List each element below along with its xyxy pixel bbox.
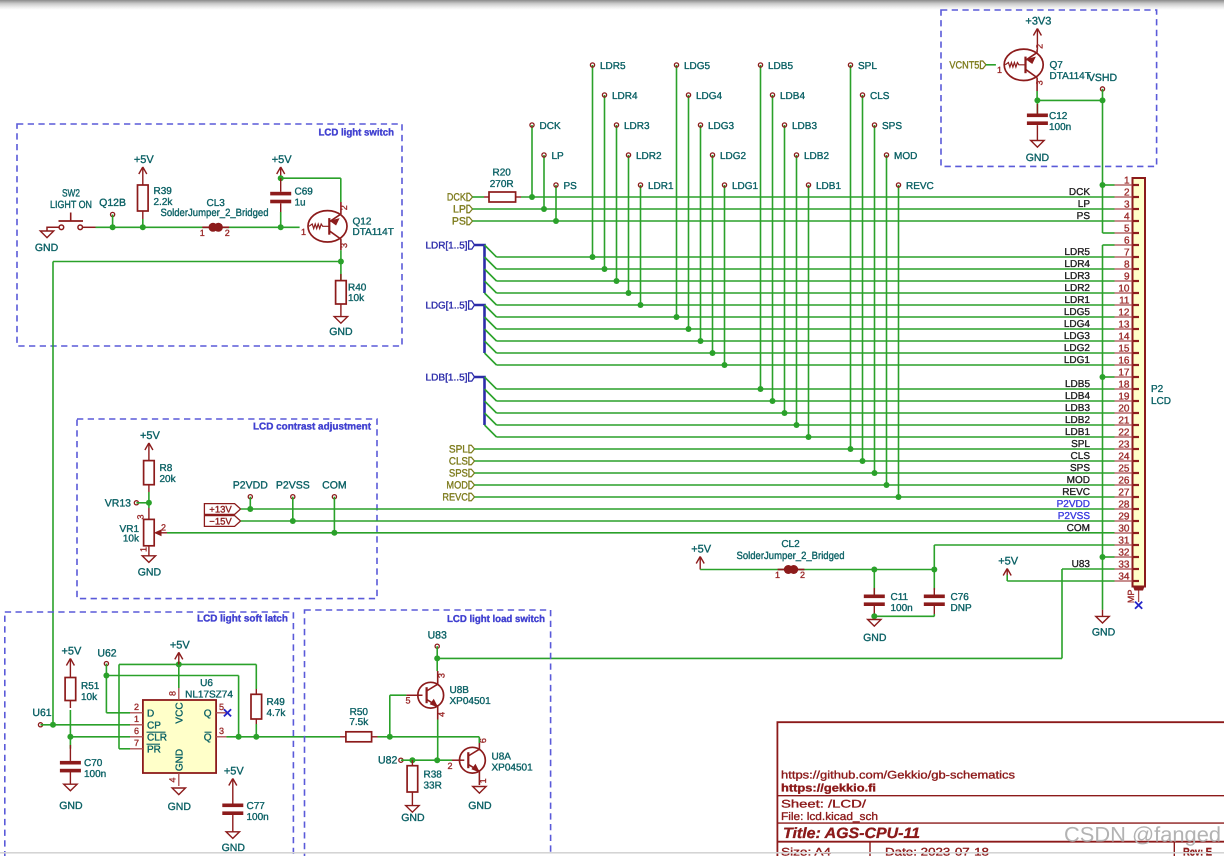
lead GND below connector [1102, 610, 1104, 617]
hierarchical label CLS [469, 457, 475, 465]
wire VCNT5 to Q7 [986, 64, 996, 66]
svg-text:2: 2 [225, 228, 230, 238]
wire U83 vertical [1061, 569, 1063, 658]
lead C70 bottom [69, 772, 71, 784]
svg-text:C70: C70 [84, 758, 103, 769]
capacitor C11 [864, 595, 885, 599]
wire Q7 pin3 down [1036, 91, 1038, 100]
pin 17 of P2 [1115, 376, 1133, 378]
junction [553, 218, 559, 224]
open wire end [554, 183, 558, 187]
ground GND at switch [47, 227, 59, 231]
lead R20 right [516, 196, 521, 198]
wire CLS row [475, 460, 1115, 462]
wire R8 to VR1 [148, 492, 150, 508]
junction [626, 290, 632, 296]
svg-text:3: 3 [1124, 200, 1130, 211]
wire U62 to Qbar [106, 675, 238, 677]
svg-text:LDR1: LDR1 [648, 181, 674, 192]
svg-text:2: 2 [447, 761, 452, 771]
svg-text:LDB1: LDB1 [1065, 427, 1090, 438]
junction [50, 722, 56, 728]
svg-text:1: 1 [1124, 176, 1130, 187]
svg-text:VR13: VR13 [105, 497, 131, 509]
power +5V above R8 [145, 443, 149, 450]
svg-text:SW2: SW2 [62, 188, 80, 200]
svg-text:1: 1 [997, 65, 1002, 75]
open wire end [848, 63, 852, 67]
open wire end [896, 183, 900, 187]
svg-text:5: 5 [219, 702, 224, 712]
pin 20 of P2 [1115, 412, 1133, 414]
wire pin17 [1103, 376, 1115, 378]
pin 13 of P2 [1115, 328, 1133, 330]
svg-text:+5V: +5V [140, 430, 161, 442]
lead R40 top [340, 262, 342, 281]
svg-text:DCK: DCK [1069, 187, 1090, 198]
wire CLR row [70, 736, 130, 738]
svg-text:10k: 10k [348, 293, 365, 304]
wire R51 to CLR [69, 710, 71, 737]
wire C76 to bottom [933, 614, 935, 616]
svg-text:4.7k: 4.7k [267, 708, 287, 719]
wire column SPS [874, 125, 876, 473]
svg-text:3: 3 [339, 243, 349, 248]
svg-text:DTA114T: DTA114T [1050, 71, 1091, 82]
junction [278, 175, 284, 181]
junction [338, 259, 344, 265]
pin 3 of P2 [1115, 208, 1133, 210]
wire REVC row [475, 496, 1115, 498]
wire VSHD vertical [1102, 89, 1104, 233]
wire SPS row [475, 472, 1115, 474]
U6 right pin stubs [216, 712, 226, 714]
junction [140, 224, 146, 230]
pin 10 of P2 [1115, 292, 1133, 294]
svg-text:GND: GND [174, 749, 185, 771]
svg-text:GND: GND [468, 800, 492, 812]
svg-text:C76: C76 [951, 592, 970, 603]
svg-text:2: 2 [1124, 188, 1130, 199]
svg-text:LDR1: LDR1 [1064, 295, 1090, 306]
junction [860, 458, 866, 464]
junction [710, 350, 716, 356]
open wire end [806, 183, 810, 187]
open wire end [1100, 87, 1104, 91]
resistor R49 [251, 694, 262, 719]
svg-text:−15V: −15V [209, 516, 232, 527]
bus entry to row y=353 [485, 341, 497, 353]
svg-text:CLS: CLS [870, 91, 890, 102]
solder jumper CL2 [778, 569, 785, 571]
junction [236, 734, 242, 740]
title block line 2 [777, 822, 1224, 824]
VR1 wiper arrow [155, 530, 161, 535]
wire U83 horizontal [437, 657, 1062, 659]
pin 28 of P2 [1115, 508, 1133, 510]
wire row y=437 [497, 436, 1115, 438]
svg-text:CP: CP [147, 720, 161, 731]
svg-text:C77: C77 [247, 801, 266, 812]
junction [434, 757, 440, 763]
svg-text:MOD: MOD [1067, 475, 1090, 486]
wire column REVC [898, 185, 900, 497]
svg-text:GND: GND [35, 242, 59, 254]
no-connect X [1135, 602, 1142, 609]
svg-text:1: 1 [478, 778, 488, 783]
wire C11/C76 bottoms [874, 615, 934, 617]
bus entry to row y=437 [485, 425, 497, 437]
wire row y=293 [497, 292, 1115, 294]
junction [871, 567, 877, 573]
svg-text:1: 1 [134, 714, 139, 724]
lead +5V to R39 [142, 167, 144, 185]
svg-text:11: 11 [1119, 296, 1130, 307]
svg-text:GND: GND [138, 567, 162, 579]
lead R8 bottom [148, 485, 150, 492]
svg-text:GND: GND [59, 800, 83, 812]
open wire end [590, 63, 594, 67]
svg-text:CL2: CL2 [781, 539, 800, 550]
lead R51 bottom [69, 701, 71, 709]
svg-text:LDG4: LDG4 [1064, 319, 1091, 330]
wire VR13 stub [136, 502, 149, 504]
ground symbol at SW2 [40, 231, 53, 238]
svg-text:+5V: +5V [61, 646, 82, 658]
wire PR left [119, 748, 130, 750]
lead R39 bottom [142, 211, 144, 219]
svg-text:REVC: REVC [1062, 487, 1090, 498]
wire to D pin [106, 712, 130, 714]
wire column LDB2 [796, 155, 798, 425]
svg-text:PS: PS [564, 181, 578, 192]
svg-text:LDB3: LDB3 [1065, 403, 1090, 414]
junction [434, 655, 440, 661]
svg-text:2: 2 [800, 570, 805, 580]
wire stub Q12B [112, 215, 114, 228]
transistor Q12 DTA114T [308, 211, 347, 242]
svg-text:1u: 1u [295, 198, 306, 209]
svg-text:LDG1: LDG1 [1064, 355, 1091, 366]
svg-text:LDB3: LDB3 [792, 121, 817, 132]
svg-text:Title: AGS-CPU-11: Title: AGS-CPU-11 [783, 825, 920, 842]
wire U62 down [105, 664, 107, 713]
svg-text:C69: C69 [295, 187, 314, 198]
svg-text:270R: 270R [490, 179, 514, 190]
svg-text:16: 16 [1118, 356, 1130, 367]
wire +5V to pin8 [178, 664, 180, 688]
pin 22 of P2 [1115, 436, 1133, 438]
wire pin6 down [478, 737, 480, 743]
wire node to U8A pin6 [390, 736, 480, 738]
svg-text:31: 31 [1118, 536, 1130, 547]
wire COM row [167, 532, 1115, 534]
power +5V above U6 [175, 652, 179, 659]
svg-text:P2VSS: P2VSS [1058, 511, 1091, 522]
wire U83 to U8B collector [436, 646, 438, 671]
svg-text:4: 4 [1124, 212, 1130, 223]
svg-text:4: 4 [437, 712, 447, 717]
svg-text:20k: 20k [160, 474, 177, 485]
bus entry to row y=317 [485, 305, 497, 317]
lead U8A base [452, 759, 464, 761]
flip-flop U6 NL17SZ74 body [143, 700, 216, 773]
svg-text:GND: GND [1026, 152, 1050, 164]
power +5V above R39 [139, 167, 143, 174]
svg-text:D: D [147, 708, 154, 719]
svg-text:R49: R49 [267, 697, 286, 708]
open wire end [291, 495, 295, 499]
hierarchical label DCK [467, 193, 473, 201]
ground below C70 [64, 784, 77, 791]
wire row y=353 [497, 352, 1115, 354]
junction [331, 530, 337, 536]
pin 8 of P2 [1115, 268, 1133, 270]
open wire end [722, 183, 726, 187]
junction [931, 567, 937, 573]
wire down to R49 [255, 664, 257, 689]
wire column LP [543, 155, 545, 209]
junction [253, 734, 259, 740]
wire row y=257 [497, 256, 1115, 258]
wire +5V to R49 [179, 663, 256, 665]
svg-text:VCC: VCC [174, 702, 185, 723]
svg-text:1: 1 [200, 228, 205, 238]
wire column LDG4 [688, 95, 690, 329]
pin 11 of P2 [1115, 304, 1133, 306]
junction [541, 206, 547, 212]
svg-text:LP: LP [552, 151, 565, 162]
svg-text:LDG3: LDG3 [708, 121, 735, 132]
svg-text:30: 30 [1118, 524, 1130, 535]
svg-text:SolderJumper_2_Bridged: SolderJumper_2_Bridged [737, 550, 845, 562]
svg-text:https://github.com/Gekkio/gb-s: https://github.com/Gekkio/gb-schematics [781, 770, 1016, 782]
junction [686, 326, 692, 332]
wire column LDG5 [676, 65, 678, 317]
svg-text:DCK: DCK [540, 121, 561, 132]
svg-text:1: 1 [139, 547, 149, 552]
svg-text:8: 8 [1124, 260, 1130, 271]
svg-text:7.5k: 7.5k [349, 717, 369, 728]
svg-text:https://gekkio.fi: https://gekkio.fi [781, 783, 876, 795]
U6 left pin stubs [130, 712, 143, 714]
pin 23 of P2 [1115, 448, 1133, 450]
svg-text:U6: U6 [200, 678, 213, 689]
svg-text:3: 3 [1035, 80, 1045, 85]
lead R38 bottom [411, 792, 413, 806]
svg-text:GND: GND [863, 632, 887, 644]
svg-text:SPL: SPL [449, 444, 468, 456]
svg-text:LCD light soft latch: LCD light soft latch [197, 614, 288, 625]
open wire end [332, 495, 336, 499]
ground below connector [1096, 616, 1109, 623]
svg-text:LDB4: LDB4 [780, 91, 805, 102]
svg-text:MOD: MOD [894, 151, 917, 162]
svg-text:LDR4: LDR4 [612, 91, 638, 102]
pin 30 of P2 [1115, 532, 1133, 534]
wire column LDR4 [604, 95, 606, 269]
junction [602, 266, 608, 272]
capacitor C69 [270, 192, 291, 196]
pin 24 of P2 [1115, 460, 1133, 462]
ground below R40 [334, 317, 347, 324]
bus entry to row y=341 [485, 329, 497, 341]
wire MOD row [475, 484, 1115, 486]
lead R49 bottom [255, 719, 257, 725]
svg-text:GND: GND [329, 326, 353, 338]
svg-text:3: 3 [136, 514, 146, 519]
svg-text:Q12B: Q12B [99, 197, 126, 209]
lead R38 top [411, 760, 413, 766]
transistor U8B XP04501 [418, 682, 444, 708]
svg-text:+5V: +5V [134, 154, 155, 166]
svg-text:+5V: +5V [691, 544, 712, 556]
svg-text:R20: R20 [493, 167, 512, 178]
pin 15 of P2 [1115, 352, 1133, 354]
bus entry to row y=293 [485, 281, 497, 293]
junction [722, 362, 728, 368]
svg-text:8: 8 [168, 691, 178, 696]
solder jumper CL3 [202, 226, 209, 228]
pin 31 of P2 [1115, 544, 1133, 546]
svg-text:10: 10 [1118, 284, 1130, 295]
svg-text:VSHD: VSHD [1088, 72, 1118, 84]
power +5V above C77 [229, 779, 233, 786]
svg-text:PR: PR [147, 744, 161, 755]
svg-text:LDR3: LDR3 [1064, 271, 1090, 282]
pin 5 of P2 [1115, 232, 1133, 234]
lead C77 bottom [232, 815, 234, 832]
connector P2 bottom notch [1133, 587, 1145, 591]
svg-text:LDR4: LDR4 [1064, 259, 1090, 270]
svg-text:6: 6 [134, 726, 139, 736]
capacitor C12 [1027, 114, 1048, 118]
svg-text:C12: C12 [1049, 111, 1068, 122]
wire +5V down [1006, 575, 1008, 581]
svg-text:LDG2: LDG2 [720, 151, 747, 162]
svg-text:SPS: SPS [1070, 463, 1090, 474]
junction [529, 194, 535, 200]
svg-text:GND: GND [168, 801, 192, 813]
resistor R38 [407, 766, 418, 792]
svg-text:SPL: SPL [858, 61, 877, 72]
wire P2VSS stub [292, 497, 294, 521]
svg-text:NL17SZ74: NL17SZ74 [185, 689, 233, 700]
wire CL2 row [700, 569, 874, 571]
svg-text:Q: Q [204, 708, 212, 719]
open wire end [104, 662, 108, 666]
hierarchical label MOD [469, 481, 475, 489]
junction [103, 673, 109, 679]
wire P2VDD stub [249, 497, 251, 509]
svg-text:LDR3: LDR3 [624, 121, 650, 132]
junction [674, 314, 680, 320]
wire column SPL [850, 65, 852, 449]
potentiometer VR1 [144, 519, 155, 545]
svg-text:2: 2 [134, 702, 139, 712]
junction [176, 661, 182, 667]
pin 27 of P2 [1115, 496, 1133, 498]
pin MP stub [1138, 591, 1140, 603]
junction [848, 446, 854, 452]
bus entry to row y=305 [485, 293, 497, 305]
open wire end [530, 123, 534, 127]
wire column LDR3 [616, 125, 618, 281]
svg-text:LDB5: LDB5 [768, 61, 793, 72]
svg-text:LDR5: LDR5 [1064, 247, 1090, 258]
switch SW2 [59, 225, 64, 230]
svg-text:COM: COM [1067, 523, 1090, 534]
transistor U8A XP04501 [460, 747, 486, 773]
pin 7 of P2 [1115, 256, 1133, 258]
svg-text:SolderJumper_2_Bridged: SolderJumper_2_Bridged [161, 207, 269, 219]
svg-text:CLS: CLS [449, 456, 468, 468]
junction [290, 518, 296, 524]
wire row y=413 [497, 412, 1115, 414]
svg-text:18: 18 [1118, 380, 1130, 391]
power +5V above C69 [277, 167, 281, 174]
U8B pin stubs [437, 671, 439, 684]
lead C12 top [1036, 100, 1038, 113]
svg-text:33: 33 [1118, 560, 1130, 571]
junction [1100, 374, 1106, 380]
open wire end [638, 183, 642, 187]
svg-text:P2VSS: P2VSS [276, 479, 310, 491]
wire GND vertical at connector [1102, 245, 1104, 610]
pin 14 of P2 [1115, 340, 1133, 342]
open wire end [134, 501, 138, 505]
capacitor C70 [60, 761, 81, 765]
wire collector to left [53, 261, 341, 263]
wire down to Qbar row [238, 676, 240, 737]
wire R50 to node [378, 736, 390, 738]
wire column MOD [886, 155, 888, 485]
svg-text:R40: R40 [348, 283, 367, 294]
open wire end [794, 153, 798, 157]
svg-text:DCK: DCK [447, 192, 466, 204]
svg-text:1: 1 [775, 570, 780, 580]
hierarchical label VCNT5 [980, 61, 986, 69]
svg-text:3: 3 [437, 673, 447, 678]
junction [614, 278, 620, 284]
ground below U6 [172, 788, 185, 795]
svg-text:20: 20 [1118, 404, 1130, 415]
wire pin32 [1103, 556, 1115, 558]
svg-text:14: 14 [1118, 332, 1130, 343]
bus entry to row y=425 [485, 413, 497, 425]
pin 26 of P2 [1115, 484, 1133, 486]
wire column LDB4 [772, 95, 774, 401]
bottom gray line [0, 852, 1224, 854]
junction [1100, 554, 1106, 560]
open wire end [674, 63, 678, 67]
open wire end [686, 93, 690, 97]
resistor R50 [346, 732, 372, 742]
U6 GND pin [178, 773, 180, 786]
resistor R39 [138, 185, 149, 211]
title block vertical dividers [869, 842, 871, 856]
open wire end [710, 153, 714, 157]
svg-text:21: 21 [1118, 416, 1130, 427]
svg-text:LDR2: LDR2 [636, 151, 662, 162]
svg-text:LCD light switch: LCD light switch [319, 128, 395, 139]
title block line 3 [777, 841, 1224, 843]
svg-text:LDR5: LDR5 [600, 61, 626, 72]
svg-text:LDG[1..5]: LDG[1..5] [426, 301, 468, 312]
svg-text:2: 2 [1035, 44, 1045, 49]
svg-text:100n: 100n [891, 603, 913, 614]
wire pin33 U83 [1062, 568, 1115, 570]
